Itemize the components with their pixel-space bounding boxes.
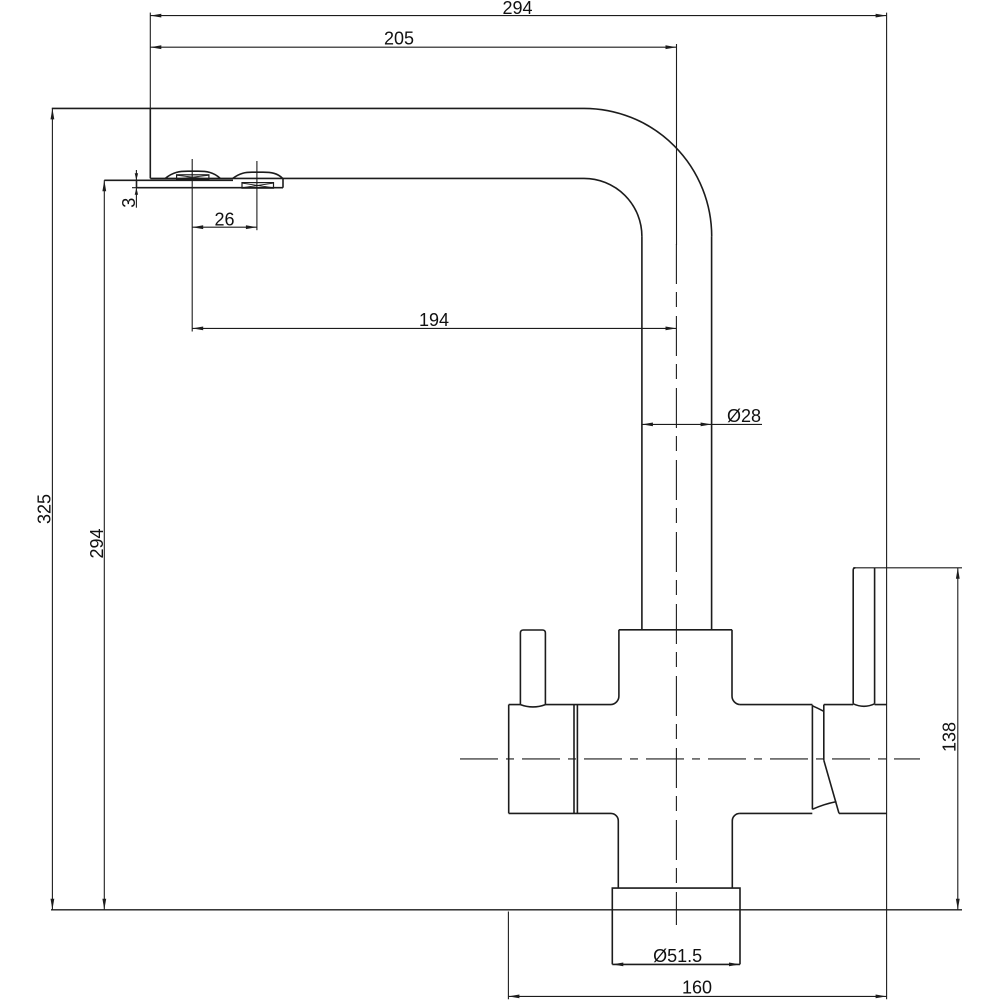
arrow dia51.5 right	[729, 963, 740, 967]
arrow dim3 lower	[135, 188, 138, 195]
body shoulder right edge with flare fillet	[732, 630, 740, 705]
right cap left edge	[823, 705, 825, 761]
arrow 138 top	[956, 568, 960, 579]
arrow 294 left bottom	[102, 899, 106, 910]
right handle tube right wall	[874, 568, 876, 704]
aerator plate left edge	[136, 180, 138, 187]
lower tube right edge with fillet	[732, 813, 739, 888]
svg-text:194: 194	[419, 310, 449, 330]
arrow dim3 upper	[135, 173, 138, 180]
right nozzle slot	[242, 183, 274, 189]
countertop mounting line	[51, 909, 962, 911]
svg-text:294: 294	[502, 0, 532, 18]
ext line 160 left	[507, 912, 509, 1000]
arrow 194 right	[666, 327, 677, 331]
right ext line x=886.6 full	[886, 13, 888, 1000]
right nozzle dome	[233, 172, 283, 179]
svg-text:325: 325	[35, 494, 55, 524]
svg-text:205: 205	[384, 29, 414, 49]
dim line 294 top	[150, 15, 886, 17]
dim 3 ext ticks	[132, 180, 137, 187]
left cap seam line 2	[576, 705, 578, 814]
arrow 26 left	[192, 225, 203, 229]
arrow 205 left	[150, 45, 161, 49]
left nozzle slot	[177, 175, 209, 180]
left nozzle slot hatch	[177, 175, 209, 179]
ext line 205 right / riser centre solid part	[676, 44, 678, 245]
dim line 26	[192, 226, 257, 228]
left cap seam line 1	[573, 705, 575, 814]
band right end edge	[811, 705, 813, 810]
base flange	[612, 888, 740, 964]
vertical body centreline	[675, 244, 677, 925]
ext line 138 top	[853, 567, 962, 569]
dim line 294 left vertical	[103, 180, 105, 910]
right cap top edge segments	[824, 704, 887, 706]
arrow dia28 left	[642, 423, 653, 427]
dim line 325 vertical	[51, 108, 53, 909]
svg-text:160: 160	[682, 978, 712, 998]
dim line dia28	[642, 423, 762, 425]
lower tube left edge with fillet	[611, 813, 618, 888]
ball joint arc	[812, 802, 836, 810]
arrow 205 right	[666, 45, 677, 49]
right nozzle centreline ext	[256, 161, 258, 230]
aerator plate top	[104, 179, 233, 181]
aerator plate bottom	[137, 187, 284, 189]
dim line 194	[192, 327, 676, 329]
arrow dia28 right	[701, 423, 712, 427]
cone transition line	[812, 706, 823, 712]
arrow dia51.5 left	[612, 963, 623, 967]
dim line 205	[150, 46, 676, 48]
arrow 325 bottom	[51, 899, 55, 910]
right cap bottom edge	[839, 812, 887, 814]
spout bottom edge	[150, 177, 584, 179]
svg-text:26: 26	[214, 209, 234, 229]
left knob	[520, 630, 545, 705]
ext line spout tip vertical	[149, 13, 151, 109]
svg-text:138: 138	[940, 722, 960, 752]
spout inner bend arc	[584, 178, 642, 236]
left nozzle centreline ext	[191, 159, 193, 332]
dim 3 lower arrow line	[135, 188, 137, 208]
arrow 138 bottom	[956, 899, 960, 910]
aerator plate right edge	[282, 179, 284, 188]
arrow 294 top right	[876, 14, 887, 18]
svg-text:Ø28: Ø28	[727, 406, 761, 426]
arrow 26 right	[246, 225, 257, 229]
riser pipe right wall	[711, 236, 713, 629]
spout outer bend arc	[584, 108, 712, 236]
base bottom edge	[612, 963, 740, 965]
left knob bottom arc	[520, 705, 545, 707]
arrow 160 right	[876, 995, 887, 999]
riser pipe left wall	[641, 236, 643, 629]
body band left end cap	[508, 705, 510, 814]
dim 3 upper arrow line	[135, 170, 137, 180]
spout top edge (also 325 extension)	[52, 107, 584, 109]
arrow 194 left	[192, 327, 203, 331]
right handle tube left wall	[853, 568, 855, 704]
body band top edge segments	[509, 704, 813, 706]
right handle tube bottom arc	[853, 704, 874, 707]
left nozzle dome	[165, 171, 220, 178]
arrow 294 left top	[102, 180, 106, 191]
svg-text:294: 294	[87, 528, 107, 558]
dim line 138 vertical	[957, 568, 959, 910]
body shoulder left edge with flare fillet	[611, 630, 619, 705]
body shoulder top	[619, 629, 732, 631]
spout tip face	[149, 108, 151, 178]
arrow 325 top	[51, 108, 55, 119]
lever diagonal edge	[824, 760, 839, 813]
svg-text:Ø51.5: Ø51.5	[653, 946, 702, 966]
right nozzle slot hatch	[242, 183, 273, 188]
dim line 160	[508, 995, 886, 997]
svg-text:3: 3	[119, 198, 139, 208]
arrow 160 left	[508, 995, 519, 999]
body band bottom edge segments	[509, 812, 813, 814]
arrow 294 top left	[150, 14, 161, 18]
horizontal body centreline	[460, 758, 920, 760]
